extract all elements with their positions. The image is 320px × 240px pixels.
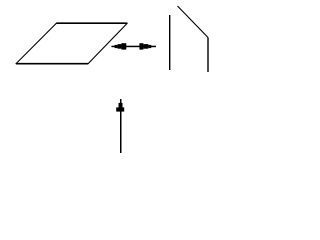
parallelogram bbox=[16, 23, 128, 64]
angle lines bbox=[170, 6, 208, 72]
up arrow bbox=[116, 99, 124, 153]
double arrow bbox=[111, 43, 155, 49]
